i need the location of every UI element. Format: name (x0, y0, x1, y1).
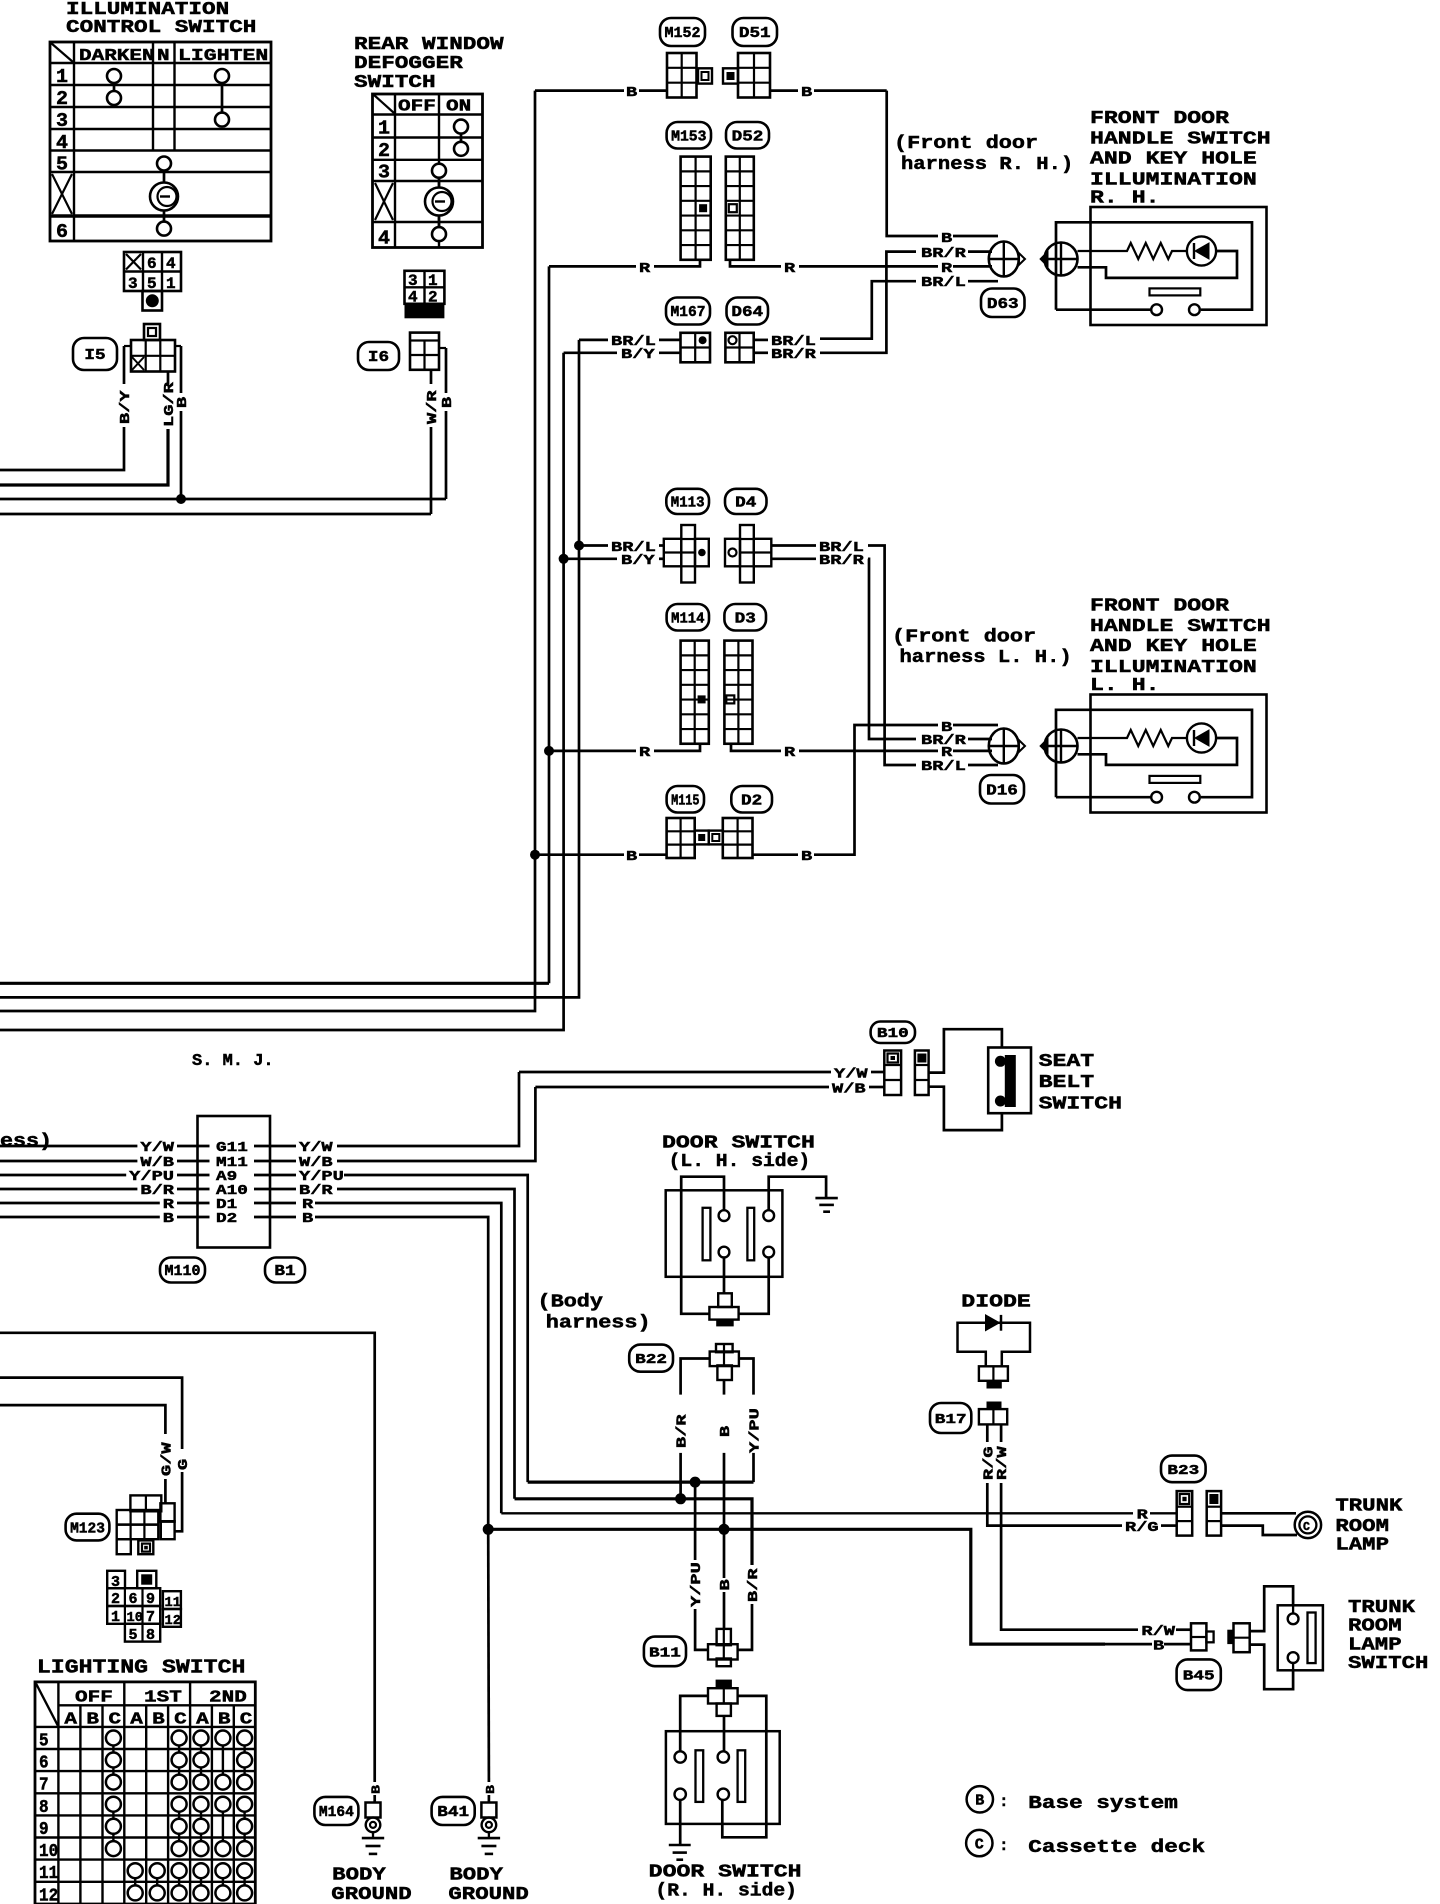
trunk lamp switch slot (1308, 1613, 1316, 1664)
svg-text:5: 5 (39, 1731, 49, 1751)
svg-text:ON: ON (446, 98, 471, 117)
connector circle B-side RH (1040, 243, 1078, 276)
connector I6 (410, 333, 446, 370)
junction dot B/Y at M113 (559, 554, 569, 564)
label BR/L left M113 (611, 540, 656, 556)
trunk room lamp (1295, 1512, 1321, 1538)
svg-text:BR/L: BR/L (921, 759, 966, 775)
svg-text:(Front door: (Front door (894, 134, 1038, 154)
svg-text:ILLUMINATION: ILLUMINATION (1090, 170, 1257, 190)
svg-text:S. M. J.: S. M. J. (192, 1052, 274, 1071)
SMJ right wire W/B (254, 1087, 535, 1171)
junction dot B bus at B22 (719, 1524, 730, 1535)
label B at B41 (484, 1785, 498, 1794)
svg-text:LAMP: LAMP (1348, 1635, 1402, 1655)
svg-text:B: B (718, 1579, 734, 1591)
door switch RH title (649, 1863, 802, 1902)
svg-text:Y/PU: Y/PU (689, 1562, 705, 1607)
SMJ pin label A10 (216, 1183, 248, 1199)
svg-text:7: 7 (39, 1776, 49, 1796)
svg-text:LAMP: LAMP (1335, 1535, 1389, 1555)
svg-text:2: 2 (378, 140, 390, 162)
svg-text:1: 1 (378, 118, 390, 140)
svg-text:9: 9 (39, 1820, 49, 1840)
svg-text:5: 5 (129, 1627, 138, 1644)
svg-text:OFF: OFF (75, 1689, 113, 1708)
label BR/R at RH illumination (921, 246, 967, 262)
wire G/W to M123 (0, 1405, 165, 1503)
lighting switch title (37, 1657, 246, 1679)
svg-text:BR/R: BR/R (921, 246, 967, 262)
svg-text:BR/R: BR/R (771, 347, 817, 363)
svg-text:R: R (784, 745, 796, 761)
connector D4 (725, 525, 771, 583)
wire seat belt lower loop (929, 1087, 1002, 1130)
svg-text:M113: M113 (671, 496, 705, 512)
body ground connector M164 (366, 1803, 381, 1833)
wire R/W from B17 (1001, 1424, 1191, 1629)
SMJ pin label A9 (216, 1169, 237, 1185)
svg-text:D2: D2 (216, 1211, 237, 1227)
svg-text:ROOM: ROOM (1335, 1517, 1389, 1537)
seat belt contact bottom (995, 1096, 1006, 1107)
svg-text:DOOR SWITCH: DOOR SWITCH (662, 1134, 815, 1154)
svg-text:R: R (639, 745, 651, 761)
body harness note (538, 1293, 651, 1334)
svg-text:B: B (218, 1711, 231, 1730)
svg-text:D64: D64 (731, 305, 763, 321)
connector I6 label (358, 342, 399, 370)
wire W/R bus top (0, 513, 431, 516)
illumination control switch title (66, 0, 256, 38)
connector M115 (667, 818, 709, 858)
LED RH (1187, 236, 1216, 265)
svg-text:D52: D52 (732, 129, 764, 145)
svg-text:1ST: 1ST (144, 1689, 182, 1708)
svg-text:D3: D3 (735, 611, 756, 627)
svg-text:R: R (941, 745, 953, 761)
wire BR/L right of D4 (771, 546, 998, 766)
lamp bar RH (1150, 288, 1201, 295)
trunk room lamp title (1335, 1496, 1402, 1555)
svg-text:D63: D63 (987, 297, 1019, 313)
label R right D3 (784, 745, 796, 761)
door switch LH slot left (703, 1208, 711, 1261)
svg-text:G: G (176, 1459, 192, 1470)
svg-text:B: B (941, 231, 953, 247)
circuit loop RH (1056, 222, 1252, 309)
label B/R at B11 (746, 1568, 762, 1602)
wire BR/R right of D4 (771, 559, 992, 739)
connector D52 label (726, 122, 769, 149)
svg-text:M164: M164 (319, 1805, 354, 1821)
label R at LH illumination (941, 745, 953, 761)
connector circle M-side RH (989, 242, 1025, 277)
svg-text::: : (999, 1793, 1009, 1811)
svg-text:B23: B23 (1167, 1464, 1199, 1479)
wire door switch RH to ground (679, 1800, 682, 1845)
svg-text:R/W: R/W (1141, 1624, 1175, 1640)
svg-text:B45: B45 (1183, 1670, 1215, 1685)
lighting switch pin grid (107, 1571, 181, 1644)
svg-text:SWITCH: SWITCH (354, 73, 436, 93)
door switch LH box (666, 1190, 783, 1277)
resistor RH (1078, 243, 1188, 259)
svg-text:M115: M115 (671, 793, 699, 809)
label BR/R right D64 (771, 347, 817, 363)
connector M153 (681, 157, 711, 260)
svg-text:M167: M167 (671, 305, 706, 321)
svg-text:C: C (975, 1836, 984, 1853)
svg-text:8: 8 (39, 1798, 49, 1818)
connector M110 label (160, 1258, 205, 1283)
wire LG/R from I5 (0, 372, 168, 486)
body ground connector B41 (481, 1803, 496, 1833)
connector M114 label (667, 604, 709, 631)
svg-text:ILLUMINATION: ILLUMINATION (66, 0, 229, 20)
seat belt contact top (995, 1056, 1006, 1067)
svg-text:5: 5 (56, 154, 68, 176)
wire bus Y/PU (528, 1480, 754, 1483)
label Y/PU at B11 (689, 1562, 705, 1607)
defogger pin grid (405, 271, 445, 319)
LED LH (1187, 723, 1216, 752)
label G (176, 1459, 192, 1470)
svg-text:M110: M110 (165, 1264, 201, 1280)
label B/Y (118, 390, 134, 424)
svg-text:4: 4 (56, 132, 68, 154)
connector B22 lower half (710, 1344, 739, 1380)
svg-text:Base system: Base system (1028, 1794, 1178, 1814)
junction dot B at M115 (530, 850, 540, 860)
wire B vertical bus left (0, 91, 535, 1011)
connector M153 label (667, 122, 711, 149)
svg-text:(L. H. side): (L. H. side) (669, 1152, 811, 1172)
svg-text:B: B (484, 1785, 498, 1794)
SMJ pin A10 left wire B/R (0, 1183, 210, 1199)
svg-text:A: A (64, 1711, 78, 1730)
svg-text:B: B (302, 1211, 314, 1227)
label R left M153 (639, 261, 651, 277)
ground symbol door switch LH (815, 1198, 837, 1212)
label B at B22 (718, 1425, 734, 1437)
svg-text:AND KEY HOLE: AND KEY HOLE (1090, 637, 1257, 657)
svg-text:B/R: B/R (675, 1414, 691, 1448)
connector M114 (681, 641, 709, 744)
svg-text:D4: D4 (735, 496, 757, 512)
wire Y/PU from B22 (739, 1359, 754, 1483)
svg-text::: : (999, 1837, 1009, 1855)
front door handle switch RH title (1090, 109, 1271, 209)
svg-text:DARKEN: DARKEN (79, 47, 155, 66)
door switch LH pin top-left (719, 1210, 730, 1221)
connector B22 upper half (709, 1293, 738, 1326)
lighting switch table (35, 1682, 255, 1904)
label B at LH illumination (941, 720, 953, 736)
svg-text:M123: M123 (70, 1521, 105, 1537)
label B at RH illumination (941, 231, 953, 247)
wire B/R from B22 (681, 1359, 710, 1499)
svg-text:C: C (240, 1711, 253, 1730)
svg-text:I5: I5 (84, 348, 105, 364)
svg-text:BELT: BELT (1039, 1073, 1095, 1093)
svg-text:B: B (718, 1425, 734, 1437)
svg-text:DOOR SWITCH: DOOR SWITCH (649, 1863, 802, 1883)
label B at B11 (718, 1579, 734, 1591)
svg-text:BR/R: BR/R (819, 553, 865, 569)
svg-text:B: B (975, 1793, 984, 1810)
svg-text:1: 1 (56, 66, 68, 88)
svg-text:1: 1 (111, 1609, 120, 1626)
svg-text:R: R (639, 261, 651, 277)
label Y/PU at B22 (748, 1408, 764, 1453)
SMJ pin label D2 (216, 1211, 237, 1227)
connector B11 label (644, 1637, 686, 1667)
connector M113 label (666, 489, 709, 514)
SMJ right wire R (254, 1197, 501, 1513)
connector D51 label (733, 18, 778, 46)
svg-text:Cassette deck: Cassette deck (1028, 1838, 1205, 1858)
wire B11 lower left branch (680, 1696, 708, 1752)
door switch RH pin bottom-mid (718, 1789, 729, 1800)
label R at B23 (1137, 1508, 1149, 1524)
wire bus R to trunk lamp (501, 1512, 1176, 1514)
svg-text:BODY: BODY (332, 1865, 386, 1885)
wire B/Y vertical bus left (0, 353, 564, 1030)
wire bus B (488, 1529, 1191, 1644)
svg-text:harness L. H.): harness L. H.) (900, 648, 1072, 668)
lamp bar LH (1150, 776, 1201, 783)
connector B23 left (1177, 1491, 1193, 1536)
svg-text:HANDLE SWITCH: HANDLE SWITCH (1090, 617, 1271, 637)
SMJ right wire Y/PU (254, 1169, 528, 1482)
svg-text:OFF: OFF (398, 98, 436, 117)
svg-text:B: B (626, 849, 638, 865)
connector B23 label (1161, 1456, 1206, 1483)
label BR/L left M167 (611, 334, 656, 350)
label R right D52 (784, 261, 796, 277)
connector D64 (725, 333, 753, 363)
svg-text:B22: B22 (635, 1353, 667, 1368)
wire Y/PU to B11 (695, 1482, 708, 1650)
svg-text:B/Y: B/Y (621, 553, 655, 569)
SMJ right wire Y/W (254, 1072, 519, 1156)
svg-text:FRONT DOOR: FRONT DOOR (1090, 109, 1229, 129)
label B at I6 (440, 396, 456, 408)
connector B10 B-side (915, 1051, 929, 1096)
wire door switch LH bottom-right pin down (739, 1258, 769, 1314)
svg-text:B: B (152, 1711, 165, 1730)
svg-text:BODY: BODY (449, 1865, 503, 1885)
svg-text:M152: M152 (665, 26, 701, 42)
svg-text:GROUND: GROUND (448, 1885, 529, 1904)
svg-text:6: 6 (39, 1754, 49, 1774)
front door harness LH note (892, 628, 1072, 669)
wire B to B11 (723, 1529, 726, 1629)
svg-text:B11: B11 (649, 1646, 681, 1661)
connector M123 (117, 1495, 175, 1554)
wire LED return LH (1078, 738, 1238, 765)
wire Y/W to seat belt switch (519, 1071, 884, 1074)
connector M152 (667, 53, 712, 98)
illumination control switch table (50, 42, 271, 243)
svg-text:4: 4 (378, 228, 390, 250)
door switch RH pin top-mid (718, 1751, 729, 1762)
diode title (961, 1293, 1031, 1313)
connector B45 label (1177, 1659, 1221, 1690)
illumination switch contact circles (107, 69, 229, 236)
wire B/Y from I5 (0, 346, 124, 470)
svg-text:ROOM: ROOM (1348, 1617, 1402, 1637)
wire B/Y left of M113 (564, 557, 664, 560)
wire BR/L right of D64 (754, 281, 998, 340)
label BR/L at RH illumination (921, 275, 966, 291)
svg-text:D16: D16 (986, 783, 1018, 799)
wire B from I6 (445, 348, 448, 499)
svg-text:8: 8 (146, 1627, 155, 1644)
svg-text:W/R: W/R (425, 390, 441, 424)
svg-text:Y/W: Y/W (140, 1140, 174, 1156)
junction dot B bus (176, 494, 186, 504)
wire BR/L left of M113 (579, 544, 664, 547)
svg-text:12: 12 (165, 1613, 181, 1629)
connector D3 label (724, 604, 766, 631)
wire B right of D2 (753, 725, 999, 855)
svg-text:D51: D51 (739, 26, 771, 42)
label BR/R right D4 (819, 553, 865, 569)
svg-text:GROUND: GROUND (331, 1885, 412, 1904)
label R/W at B45 (1141, 1624, 1175, 1640)
wire R left of M114 (549, 744, 700, 751)
wire door switch LH left branch (681, 1177, 724, 1314)
wire LED return RH (1078, 251, 1238, 278)
connector D2 (709, 818, 753, 858)
svg-text:SEAT: SEAT (1039, 1052, 1095, 1072)
junction dot BR/L at M113 (574, 541, 584, 551)
label G/W (159, 1442, 175, 1476)
connector D64 label (727, 298, 769, 325)
connector D3 (724, 641, 752, 744)
svg-text:C: C (109, 1711, 122, 1730)
svg-text:1: 1 (166, 275, 176, 293)
svg-text:harness): harness) (546, 1314, 651, 1334)
wire G to M123 (0, 1378, 182, 1532)
SMJ right wire B/R (254, 1183, 515, 1499)
S.M.J. label (192, 1052, 274, 1071)
label BR/L right D4 (819, 540, 864, 556)
seat belt switch title (1039, 1052, 1122, 1115)
defogger switch contact circles (425, 120, 468, 242)
svg-text:FRONT DOOR: FRONT DOOR (1090, 597, 1229, 617)
svg-text:B10: B10 (877, 1027, 909, 1042)
label B/Y left M113 (621, 553, 655, 569)
svg-text:LIGHTEN: LIGHTEN (178, 47, 268, 66)
connector B41 label (432, 1797, 475, 1825)
label B at M164 (370, 1785, 384, 1794)
wire R left of M153 (549, 260, 700, 267)
connector I5 (124, 324, 181, 372)
svg-text:G11: G11 (216, 1140, 248, 1156)
connector M164 label (314, 1797, 358, 1825)
trunk room lamp switch box (1278, 1605, 1323, 1670)
ground symbol door switch RH (669, 1845, 691, 1860)
door switch RH pin bottom-left (675, 1789, 686, 1800)
resistor LH (1078, 730, 1188, 746)
svg-text:B41: B41 (437, 1805, 469, 1821)
SMJ connector box (198, 1116, 271, 1248)
svg-text:B/Y: B/Y (118, 390, 134, 424)
junction dot B/R bus (675, 1493, 686, 1504)
wire trunk lamp switch lower (1250, 1645, 1293, 1690)
door switch LH pin top-right (763, 1210, 774, 1221)
wire B left of M115 (535, 853, 667, 856)
connector B1 label (265, 1258, 305, 1283)
wire W/R from I6 (430, 370, 433, 514)
label R/G at B17 (981, 1446, 997, 1480)
wire R right of D52 to RH circle (730, 260, 992, 267)
label W/B seat belt (832, 1082, 866, 1098)
svg-text:B: B (1153, 1639, 1165, 1655)
svg-text:3: 3 (128, 275, 138, 293)
svg-text:REAR WINDOW: REAR WINDOW (354, 35, 504, 55)
svg-text:CONTROL SWITCH: CONTROL SWITCH (66, 18, 256, 38)
SMJ right wire B (254, 1211, 488, 1529)
connector B17 (979, 1402, 1007, 1425)
connector D63 label (981, 289, 1025, 318)
label Y/W seat belt (834, 1067, 868, 1083)
ground symbol B41 (478, 1832, 500, 1854)
label R/W at B17 (995, 1446, 1011, 1480)
label W/R (425, 390, 441, 424)
lighting switch contact circles (106, 1731, 252, 1901)
svg-text:6: 6 (147, 255, 157, 273)
label B right D51 (801, 85, 813, 101)
svg-text:AND KEY HOLE: AND KEY HOLE (1090, 150, 1257, 170)
door switch RH box (666, 1731, 780, 1824)
switch contacts RH (1151, 304, 1200, 315)
label B at I5 (175, 396, 191, 408)
seat belt buckle bar (1005, 1055, 1016, 1107)
rear window defogger switch title (354, 35, 504, 93)
svg-text:BR/L: BR/L (921, 275, 966, 291)
connector M152 label (660, 18, 705, 46)
svg-text:A: A (196, 1711, 210, 1730)
svg-text:harness R. H.): harness R. H.) (901, 155, 1073, 175)
svg-text:(R. H. side): (R. H. side) (655, 1882, 797, 1902)
wire B from I5 (180, 346, 183, 499)
svg-text:SWITCH: SWITCH (1348, 1654, 1428, 1674)
door switch RH pin top-left (675, 1751, 686, 1762)
wire R right of D3 to LH circle (731, 744, 992, 751)
connector B23 right (1207, 1491, 1221, 1536)
connector D2 label (731, 786, 772, 813)
SMJ pin M11 left wire W/B (0, 1155, 210, 1171)
trunk lamp switch pin top (1288, 1605, 1299, 1624)
svg-text:DIODE: DIODE (961, 1293, 1031, 1313)
trunk room lamp switch title (1348, 1598, 1428, 1674)
connector B22 label (629, 1345, 673, 1372)
defogger switch table (373, 94, 483, 250)
connector M167 (681, 333, 711, 363)
seat belt switch box (988, 1048, 1031, 1114)
label BR/R at LH illumination (921, 733, 967, 749)
wire B bus top (0, 498, 446, 501)
wire BR/L left of M167 (579, 339, 681, 342)
SMJ pin G11 left wire Y/W (0, 1140, 210, 1156)
svg-text:B: B (626, 85, 638, 101)
svg-text:ess): ess) (0, 1132, 52, 1152)
door switch LH pin bottom-left (719, 1247, 730, 1258)
